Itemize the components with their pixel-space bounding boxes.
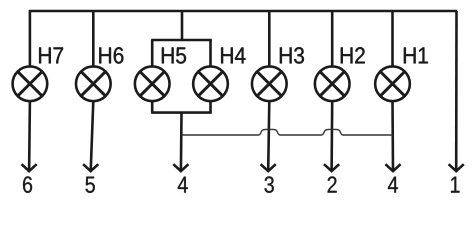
label H1 [404, 47, 428, 63]
wire drop to H1 [391, 10, 394, 67]
wire H5 bottom to block bottom bar [151, 101, 154, 112]
label terminal 1 [451, 177, 460, 193]
arrow terminal 5 [83, 164, 98, 171]
wire drop to H2 [331, 10, 334, 67]
label H3 [280, 47, 304, 63]
wire H2 to terminal 2 [330, 101, 333, 171]
wire block top-left branch to H5 [151, 40, 154, 67]
label terminal 4 (H1) [388, 177, 398, 193]
arrow terminal 1 [449, 164, 464, 171]
lamp H2 [315, 66, 350, 101]
label H7 [39, 47, 63, 63]
wire drop to H6 [92, 10, 95, 67]
arrow terminal 4 (lamps H5/H4) [173, 164, 188, 171]
arrow terminal 4 (lamp H1) [385, 164, 400, 171]
wire block output to terminal 4 [180, 113, 183, 171]
lamp H7 [13, 66, 48, 101]
label terminal 4 (H5/H4) [178, 177, 188, 193]
wire drop to H7 [29, 10, 32, 67]
wire H1 to terminal 4 [391, 101, 394, 171]
label H4 [221, 47, 245, 63]
wire right branch to terminal 1 [455, 11, 458, 171]
arrow terminal 2 [324, 164, 339, 171]
wire H6 to terminal 5 [91, 101, 94, 171]
lamp H5 [135, 66, 170, 101]
wire drop to H3 [268, 10, 271, 67]
lamp H6 [76, 66, 111, 101]
arrow terminal 6 [22, 164, 37, 171]
label H5 [162, 47, 186, 63]
wire top bar of parallel block [151, 39, 212, 42]
lamp H3 [252, 66, 287, 101]
wire block top-right branch to H4 [209, 40, 212, 67]
wire top supply rail [29, 10, 457, 13]
label terminal 3 [264, 176, 273, 192]
arrow terminal 3 [261, 164, 276, 171]
wire H3 to terminal 3 [268, 101, 269, 171]
label terminal 5 [86, 177, 95, 193]
label H6 [99, 47, 123, 63]
label H2 [341, 47, 365, 63]
label terminal 2 [328, 176, 337, 192]
wire H4 bottom to block bottom bar [209, 101, 212, 112]
wire bottom bar of parallel block [151, 111, 212, 114]
wire feed to H5/H4 parallel block [181, 10, 184, 40]
wire H7 to terminal 6 [28, 101, 31, 171]
wire jumper net 4 (H5/H4 node to H1 node, hops over H3 and H2 wires) [181, 129, 392, 135]
lamp H4 [193, 66, 228, 101]
label terminal 6 [23, 176, 32, 192]
lamp H1 [375, 66, 410, 101]
